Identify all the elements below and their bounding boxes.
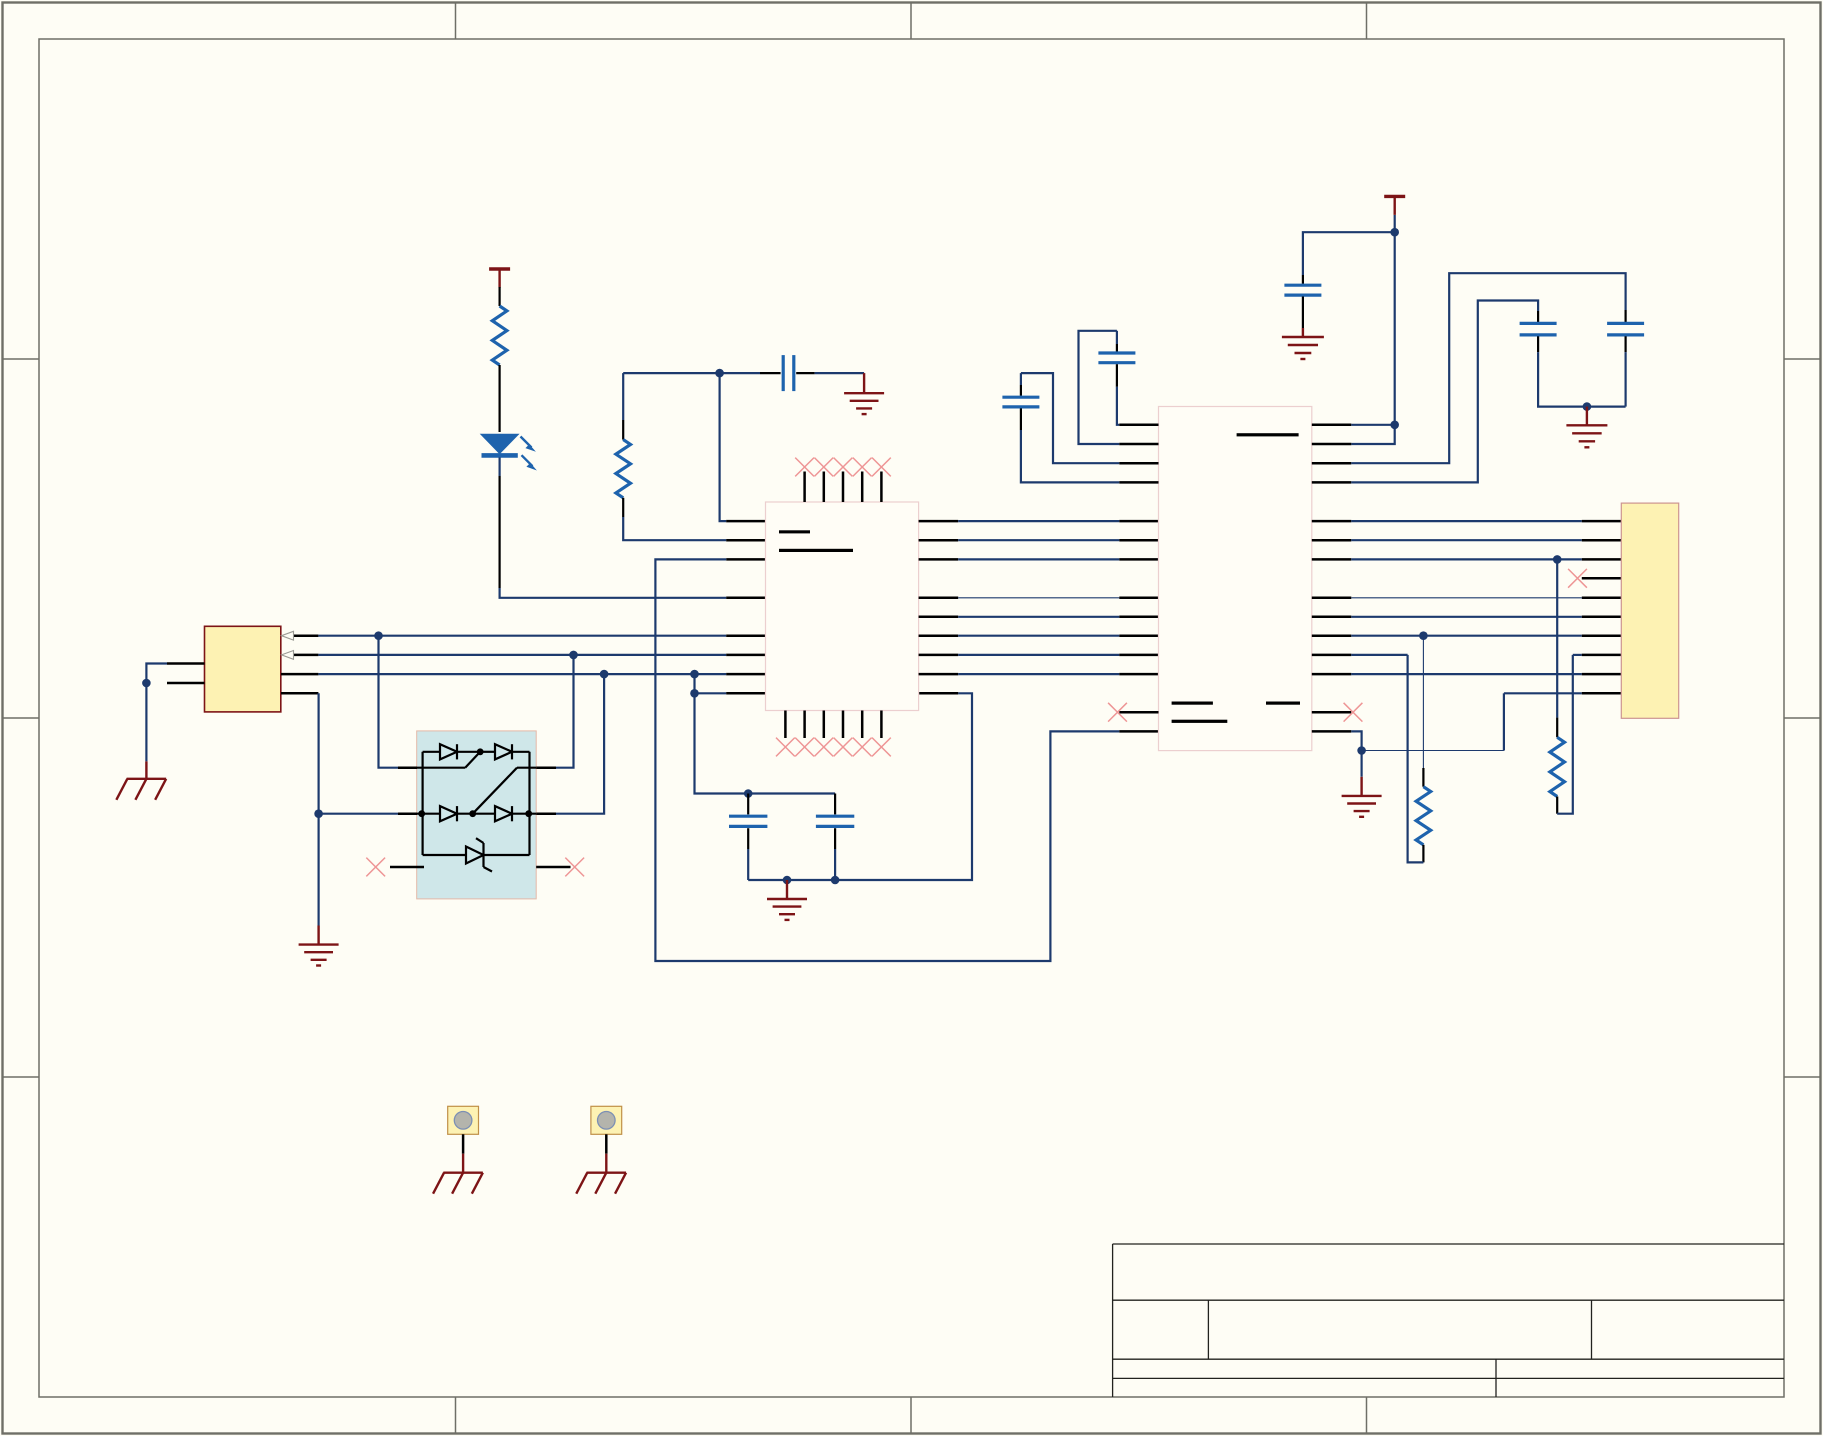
wire [318, 693, 320, 925]
node [715, 369, 724, 378]
pin J2 row9 [1582, 597, 1622, 600]
node [1390, 421, 1399, 430]
wire [422, 752, 424, 855]
pin U1 right row14 [919, 692, 959, 695]
pin U2 left row0 [1119, 424, 1158, 427]
wire [556, 655, 574, 768]
pin U1 left row13 [726, 673, 765, 676]
no-connect [834, 738, 853, 757]
wire [500, 588, 727, 598]
diode D2c [417, 806, 495, 821]
pin D2 nc left [390, 866, 424, 869]
wire [1351, 597, 1582, 599]
pin U2 right row6 [1312, 539, 1352, 542]
label bar U1b [779, 549, 853, 552]
no-connect [565, 858, 584, 877]
pin D2 out2 [536, 812, 556, 815]
pin U1 bot3 [823, 711, 826, 739]
node [314, 809, 323, 818]
wire [747, 849, 749, 880]
pin U1 right row10 [919, 616, 959, 619]
pin U1 right row5 [919, 520, 959, 523]
pin U1 top2 [823, 472, 826, 503]
pin U2 right row3 [1312, 481, 1352, 484]
pin U2 right row13 [1312, 673, 1352, 676]
wire [720, 373, 727, 521]
wire [1351, 520, 1582, 522]
node [569, 651, 578, 660]
wire [1503, 693, 1505, 750]
wire [318, 654, 726, 656]
wire [1021, 430, 1119, 482]
pin U1 left row14 [726, 692, 765, 695]
mounting pad MH1 [448, 1106, 479, 1134]
diode D2a [423, 744, 481, 759]
pin U1 bot4 [842, 711, 845, 739]
wire [499, 365, 501, 432]
pin U2 right row11 [1312, 634, 1352, 637]
zener D2e [423, 838, 530, 871]
wire [958, 673, 1119, 675]
node [374, 631, 383, 640]
label bar U2d [1172, 720, 1228, 723]
wire [473, 768, 537, 814]
pin U2 right row9 [1312, 597, 1352, 600]
label bar U2b [1172, 702, 1213, 705]
wire [815, 372, 864, 374]
wire [1362, 750, 1504, 752]
pin U2 left row5 [1119, 520, 1158, 523]
pin U2 left row6 [1119, 539, 1158, 542]
capacitor C6 [729, 794, 767, 850]
label bar U2a [1237, 433, 1299, 436]
resistor R1 [492, 306, 507, 365]
MCU U2 [1159, 407, 1312, 751]
wire [958, 558, 1119, 560]
wire [748, 693, 972, 880]
wire [1351, 215, 1394, 444]
wire [1504, 692, 1582, 694]
pin J2 row11 [1582, 634, 1622, 637]
node [690, 689, 699, 698]
ground GND2 [767, 880, 807, 920]
pin J1 lx1 [167, 662, 205, 665]
diode D2d [495, 806, 536, 821]
connector J2 [1621, 503, 1678, 718]
wire [1021, 373, 1119, 463]
no-connect [1108, 703, 1127, 722]
node [1390, 228, 1399, 237]
wire [556, 674, 604, 814]
wire [1557, 655, 1573, 814]
pin U1 right row13 [919, 673, 959, 676]
resistor R4 [1550, 718, 1565, 814]
ground GND6 [299, 926, 339, 966]
ground GND1 [844, 373, 884, 414]
pin U2 left row13 [1119, 673, 1158, 676]
pin U2 left row11 [1119, 634, 1158, 637]
no-connect [1344, 703, 1363, 722]
wire [1351, 635, 1582, 637]
pin U2 left row10 [1119, 616, 1158, 619]
pin U2 left row16 [1119, 730, 1158, 733]
pin U1 top4 [861, 472, 864, 503]
wire [834, 849, 836, 880]
wire [1116, 331, 1118, 344]
pin U2 right row10 [1312, 616, 1352, 619]
wire [499, 458, 501, 477]
node [1357, 746, 1366, 755]
pin U1 right row6 [919, 539, 959, 542]
capacitor C7 [816, 794, 854, 850]
node [418, 810, 425, 817]
pin J1 rx2 [294, 654, 318, 657]
op-amp U1 [766, 502, 919, 711]
arrow J1 rx2 [282, 651, 294, 660]
capacitor C3 [1098, 344, 1135, 387]
pin U2 right row12 [1312, 654, 1352, 657]
pin U2 right row15 [1312, 711, 1352, 714]
pin U2 left row3 [1119, 481, 1158, 484]
wire [695, 674, 836, 793]
pin J1 rx1 [294, 634, 318, 637]
wire [605, 1134, 608, 1153]
wire [1117, 387, 1119, 425]
node [744, 789, 753, 798]
pin D2 out1 [536, 766, 556, 769]
wire [318, 635, 726, 637]
pin U1 left row12 [726, 654, 765, 657]
wire [1351, 273, 1625, 463]
wire [958, 597, 1119, 599]
wire [499, 287, 501, 306]
no-connect [795, 738, 814, 757]
pin D2 in1 [398, 766, 417, 769]
wire [146, 664, 167, 762]
wire [1351, 301, 1538, 483]
pin J1 lx2 [167, 682, 205, 685]
pin U1 top3 [842, 472, 845, 503]
pin J2 row8 [1582, 577, 1622, 580]
wire [958, 635, 1119, 637]
no-connect [834, 458, 853, 477]
label bar U1 [779, 530, 810, 533]
wire [417, 752, 480, 768]
wire [1303, 232, 1395, 275]
wire [1538, 352, 1626, 407]
pin U1 bot2 [803, 711, 806, 739]
pin J2 row5 [1582, 520, 1622, 523]
no-connect [814, 738, 833, 757]
wire [1351, 558, 1582, 560]
node [469, 810, 476, 817]
capacitor C4 [1284, 275, 1321, 328]
pin J2 row10 [1582, 616, 1622, 619]
wire [318, 673, 726, 675]
wire [1351, 616, 1582, 618]
pin U2 left row12 [1119, 654, 1158, 657]
wire [1624, 352, 1626, 407]
chassis ground [116, 761, 166, 799]
wire [1351, 539, 1582, 541]
pin J1 rx3 [281, 673, 318, 676]
wire [1351, 731, 1361, 776]
pin U1 bot5 [861, 711, 864, 739]
pin U1 right row9 [919, 597, 959, 600]
pin U2 right row7 [1312, 558, 1352, 561]
wire [1079, 331, 1120, 444]
wire [1351, 673, 1582, 675]
pin U2 left row1 [1119, 443, 1158, 446]
wire [1351, 424, 1394, 426]
pin U2 left row9 [1119, 597, 1158, 600]
LED D1 [480, 434, 537, 471]
pin U1 right row12 [919, 654, 959, 657]
pin D2 in2 [398, 812, 417, 815]
node [600, 670, 609, 679]
wire [695, 692, 727, 694]
pin U2 left row2 [1119, 462, 1158, 465]
pin J2 row7 [1582, 558, 1622, 561]
wire [622, 373, 624, 420]
pin J2 row14 [1582, 692, 1622, 695]
wire [379, 636, 399, 768]
pin U2 right row0 [1312, 424, 1352, 427]
wire [623, 517, 726, 540]
resistor R3 [1416, 768, 1431, 862]
wire [1351, 654, 1407, 656]
pin U1 right row7 [919, 558, 959, 561]
pin D2 nc right [536, 866, 570, 869]
power symbol VCC1 [489, 269, 510, 288]
node [1553, 555, 1562, 564]
no-connect [853, 458, 872, 477]
capacitor C6b [1520, 311, 1557, 352]
pin U2 right row16 [1312, 730, 1352, 733]
pin U2 left row7 [1119, 558, 1158, 561]
pin U1 left row7 [726, 558, 765, 561]
no-connect [872, 738, 891, 757]
wire [528, 752, 530, 855]
wire [462, 1134, 465, 1153]
capacitor C5 [1607, 310, 1644, 352]
chassis ground [576, 1154, 626, 1194]
pin U2 right row1 [1312, 443, 1352, 446]
pin U2 left row15 [1119, 711, 1158, 714]
wire [623, 372, 760, 374]
no-connect [366, 858, 385, 877]
ESD diode array D2 [417, 731, 537, 899]
no-connect [814, 458, 833, 477]
no-connect [795, 458, 814, 477]
node [1419, 631, 1428, 640]
pin U1 left row6 [726, 539, 765, 542]
wire [499, 476, 501, 588]
ground GND5 [1342, 777, 1382, 817]
node [142, 679, 151, 688]
pin U1 top1 [803, 472, 806, 503]
pin U1 top5 [880, 472, 883, 503]
wire [1408, 655, 1424, 863]
capacitor C1 [760, 355, 815, 391]
pin U2 right row2 [1312, 462, 1352, 465]
pin U1 left row5 [726, 520, 765, 523]
pin U1 left row11 [726, 634, 765, 637]
wire [319, 813, 398, 815]
wire [1422, 636, 1424, 768]
node [525, 810, 532, 817]
node [831, 876, 840, 885]
mounting pad MH2 [591, 1106, 622, 1134]
node [477, 748, 484, 755]
wire [1020, 373, 1022, 385]
wire [655, 559, 1119, 961]
no-connect [853, 738, 872, 757]
pin U2 right row5 [1312, 520, 1352, 523]
ground GND4 [1566, 407, 1607, 448]
pin J2 row13 [1582, 673, 1622, 676]
no-connect [872, 458, 891, 477]
no-connect [1568, 569, 1587, 588]
capacitor C2 [1002, 385, 1039, 430]
ground GND3 [1282, 328, 1324, 359]
wire [958, 616, 1119, 618]
pin U1 left row9 [726, 597, 765, 600]
pin U1 bot1 [784, 711, 787, 739]
wire [958, 539, 1119, 541]
pin J2 row12 [1582, 654, 1622, 657]
power symbol VCC2 [1384, 196, 1405, 215]
no-connect [776, 738, 795, 757]
pin U1 bot6 [880, 711, 883, 739]
wire [958, 654, 1119, 656]
chassis ground [433, 1154, 483, 1194]
node [690, 670, 699, 679]
resistor R2 [616, 420, 631, 517]
pin U1 right row11 [919, 634, 959, 637]
arrow J1 rx1 [282, 631, 294, 640]
wire [1556, 559, 1558, 717]
pin J2 row6 [1582, 539, 1622, 542]
diode D2b [480, 744, 529, 759]
node [1583, 402, 1592, 411]
label bar U2c [1266, 702, 1300, 705]
wire [1573, 654, 1582, 656]
node [783, 876, 792, 885]
connector J1 [205, 626, 281, 712]
pin J1 rx4 [281, 692, 318, 695]
wire [958, 520, 1119, 522]
